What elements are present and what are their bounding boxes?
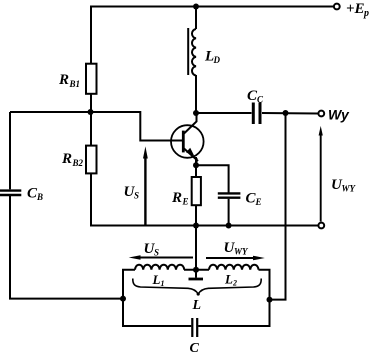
wire RB1 bottom to node	[90, 94, 92, 112]
arrow UWY vertical	[320, 134, 322, 222]
svg-text:WY: WY	[234, 247, 249, 257]
svg-text:2: 2	[232, 279, 237, 288]
svg-text:1: 1	[161, 279, 165, 288]
resistor RB2	[86, 146, 97, 174]
arrow US horizontal (left)	[138, 257, 193, 259]
node: CE / ground rail	[226, 223, 232, 229]
svg-text:S: S	[134, 191, 139, 201]
svg-text:L: L	[152, 272, 161, 287]
svg-text:L: L	[224, 272, 233, 287]
wire tank left side	[123, 270, 191, 326]
wire tank right side	[198, 270, 269, 326]
transistor Q1 circle	[171, 125, 204, 158]
wire left rail lower	[10, 196, 123, 299]
svg-text:S: S	[154, 248, 159, 258]
resistor RE	[192, 177, 201, 205]
wire tank centre tap segment	[184, 269, 209, 271]
terminal +Ep	[334, 4, 340, 10]
inductor L2	[209, 265, 259, 270]
svg-text:D: D	[213, 55, 221, 65]
wire emitter to RE	[195, 157, 197, 177]
svg-text:B1: B1	[69, 79, 81, 89]
capacitor CC plates	[253, 103, 260, 125]
inductor L1	[135, 265, 184, 270]
wire LD branch bottom to collector node	[195, 75, 197, 113]
svg-text:C: C	[257, 95, 264, 105]
wire left rail upper	[9, 112, 11, 189]
node: collector	[193, 110, 199, 116]
arrow UWY horizontal (right)	[206, 257, 256, 259]
svg-text:+E: +E	[346, 1, 365, 17]
svg-text:R: R	[61, 151, 72, 167]
svg-text:WY: WY	[342, 184, 357, 194]
node: CC output / feedback	[283, 110, 289, 116]
resistor RB1	[86, 64, 97, 94]
capacitor CB plates	[0, 191, 21, 195]
inductor LD coil	[192, 29, 196, 76]
svg-text:R: R	[171, 190, 182, 206]
capacitor C plates	[192, 318, 197, 337]
svg-text:E: E	[182, 197, 189, 207]
wire RB2 bottom and ground rail	[91, 173, 318, 225]
wire CE bottom	[228, 199, 230, 226]
node: tank centre tap	[193, 267, 199, 273]
svg-text:Wy: Wy	[328, 107, 350, 123]
transistor Q1 base bar	[182, 131, 185, 153]
inductor LD core bar	[187, 28, 189, 75]
node: RE / ground rail	[193, 223, 199, 229]
wire emitter node to CE branch	[196, 165, 229, 192]
wire top supply rail	[91, 7, 334, 65]
svg-text:B2: B2	[72, 158, 84, 168]
transistor Q1 emitter lead with arrow	[184, 149, 198, 162]
node: top rail / LD	[193, 4, 199, 10]
arrow US vertical	[144, 156, 146, 225]
svg-text:E: E	[255, 197, 262, 207]
wire base node horizontal	[10, 112, 182, 141]
ground at tank centre tap	[195, 270, 197, 278]
svg-text:R: R	[58, 72, 69, 88]
capacitor CE plates	[218, 193, 241, 197]
brace under L1 L2	[133, 279, 261, 295]
wire RE bottom to tank centre tap	[195, 205, 197, 270]
wire collector node to CC	[196, 112, 252, 114]
node: tank right tap	[267, 297, 273, 303]
terminal bottom output	[318, 223, 324, 229]
svg-text:L: L	[192, 298, 202, 313]
wire feedback drop from CC node down	[270, 113, 286, 300]
svg-text:C: C	[190, 341, 200, 352]
wire LD branch top	[195, 7, 197, 30]
transistor Q1 collector lead	[184, 113, 197, 134]
terminal Wy output	[318, 111, 324, 117]
svg-text:p: p	[363, 8, 369, 19]
wire CC to Wy terminal	[262, 112, 318, 115]
node: emitter	[193, 162, 199, 168]
svg-text:B: B	[36, 192, 43, 202]
wire node to RB2 top	[90, 112, 92, 146]
node: base divider	[88, 109, 94, 115]
node: tank left tap	[120, 296, 126, 302]
